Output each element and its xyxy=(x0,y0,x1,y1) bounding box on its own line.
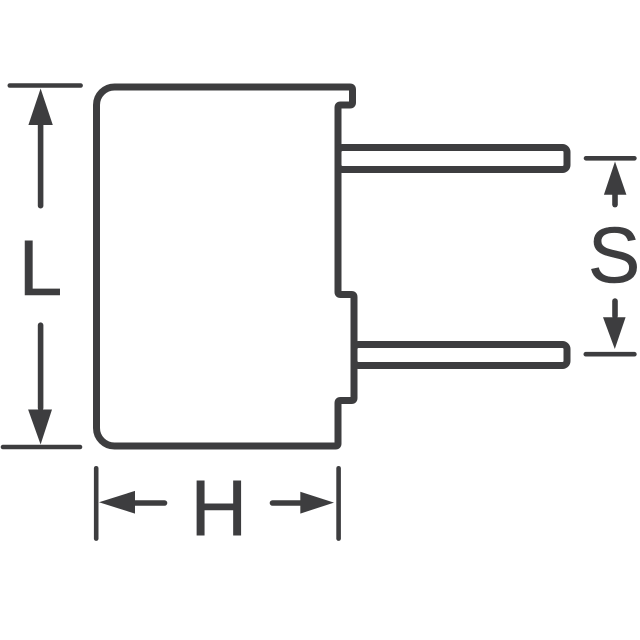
dimension S up arrow stem xyxy=(612,193,618,205)
component body xyxy=(97,87,355,446)
dimension H right arrow stem xyxy=(273,500,303,506)
svg-text:L: L xyxy=(19,224,63,312)
dimension L down arrowhead xyxy=(28,410,52,445)
dimension L up arrow stem xyxy=(38,123,44,206)
lead 1 (top pin) xyxy=(338,148,567,170)
dimension L down arrow stem xyxy=(38,325,44,408)
dimension S down arrowhead xyxy=(603,317,626,349)
dimension H left extension line xyxy=(94,468,99,538)
dimension L top terminator xyxy=(10,83,81,88)
dimension H left arrow stem xyxy=(133,500,165,506)
dimension S up arrowhead xyxy=(604,162,627,195)
svg-text:S: S xyxy=(588,211,640,299)
dimension H right arrowhead xyxy=(300,492,334,514)
dimension S down arrow stem xyxy=(612,301,618,316)
dimension L up arrowhead xyxy=(28,89,52,126)
dimension H left arrowhead xyxy=(99,491,135,514)
dimension H right extension line xyxy=(336,468,341,538)
dimension S bottom terminator xyxy=(586,352,635,357)
svg-text:H: H xyxy=(190,464,247,552)
lead 2 (bottom pin) xyxy=(354,345,567,366)
dimension L bottom terminator xyxy=(3,445,80,450)
dimension S top terminator xyxy=(586,156,634,161)
